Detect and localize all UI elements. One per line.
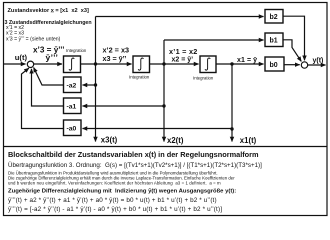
svg-text:x3 = ȳ’’: x3 = ȳ’’ (103, 54, 127, 63)
svg-text:y(t): y(t) (313, 57, 324, 64)
svg-text:Zugehörige Differenzialgleichu: Zugehörige Differenzialgleichung mit Ind… (8, 188, 236, 194)
divider line between diagram and text block (4, 146, 328, 148)
gain block -a0 (64, 120, 82, 136)
svg-text:b0: b0 (270, 62, 278, 69)
summing junction S2 (301, 62, 307, 68)
node x3 on main line (94, 62, 97, 65)
gain block -a2 (64, 77, 82, 93)
wire x2 to -a1 (83, 105, 165, 107)
integrator I2 (133, 56, 150, 73)
wire x3 tap vertical (95, 17, 97, 142)
svg-text:ȳ’’’(t) + a2 * ȳ’’(t) + a1 * ȳ: ȳ’’’(t) + a2 * ȳ’’(t) + a1 * ȳ’(t) + a0 … (8, 197, 217, 204)
integrator I1 (64, 56, 81, 73)
summing junction S1 (27, 61, 33, 67)
node x1 on main line (230, 62, 233, 65)
svg-text:-a2: -a2 (67, 83, 77, 90)
integral sign I3 (205, 58, 210, 70)
svg-text:x2(t): x2(t) (167, 136, 184, 145)
svg-text:Übertragungsfunktion 3. Ordnun: Übertragungsfunktion 3. Ordnung: G(s) = … (8, 162, 262, 169)
wire u(t) input (4, 63, 26, 65)
wire I2 to I3 (150, 63, 199, 65)
svg-text:Zustandsvektor x̲ = [x1 x2 x: Zustandsvektor x̲ = [x1 x2 x3] (8, 8, 89, 14)
wire b1 feed (164, 39, 264, 41)
wire y(t) output (308, 64, 326, 66)
wire x1 to -a0 (83, 128, 233, 130)
wire S1 to integrator I1 (34, 63, 62, 65)
svg-text:ȳ’’’: ȳ’’’ (46, 53, 59, 63)
svg-text:u(t): u(t) (15, 53, 28, 62)
svg-text:Integration: Integration (129, 75, 150, 80)
svg-text:x1(t): x1(t) (240, 136, 257, 145)
wire x1 tap vertical (231, 64, 233, 142)
node a1 junction (162, 104, 165, 107)
wire x3 to -a2 (83, 84, 96, 86)
svg-text:ȳ’’’(t) = [-a2 * ȳ’’(t) - a1 *: ȳ’’’(t) = [-a2 * ȳ’’(t) - a1 * ȳ’(t) - a… (8, 206, 222, 213)
wire b2 feed (96, 16, 264, 18)
svg-text:b2: b2 (270, 14, 278, 21)
svg-text:-a1: -a1 (67, 104, 77, 111)
svg-text:b1: b1 (270, 38, 278, 45)
svg-text:-a0: -a0 (67, 126, 77, 133)
wire I1 to I2 (81, 63, 132, 65)
svg-text:x2 = ȳ’: x2 = ȳ’ (172, 57, 194, 64)
integral sign I2 (138, 58, 143, 70)
wire -a2 output to S1 (34, 68, 64, 86)
svg-text:Integration: Integration (66, 48, 87, 53)
wire b1 output (283, 40, 301, 62)
gain block b1 (265, 33, 283, 47)
svg-text:x1 = ȳ: x1 = ȳ (237, 57, 257, 64)
wire -a1 output to S1 (32, 69, 64, 106)
wire -a0 output to S1 (22, 68, 64, 128)
svg-text:Blockschaltbild der Zustandsva: Blockschaltbild der Zustandsvariablen x(… (8, 150, 259, 159)
integrator I3 (200, 56, 216, 73)
svg-text:x’1 = x2: x’1 = x2 (169, 47, 198, 56)
wire I3 to b0 (216, 63, 264, 65)
svg-text:x3(t): x3(t) (101, 135, 118, 144)
svg-text:x’3 = ȳ’’’ = (siehe unten): x’3 = ȳ’’’ = (siehe unten) (6, 36, 61, 42)
node a0 junction (230, 127, 233, 130)
integral sign I1 (69, 58, 74, 70)
gain block b0 (265, 57, 284, 71)
node a2 junction (94, 83, 97, 86)
svg-text:und b werden neu eingeführt. V: und b werden neu eingeführt. Vereinfachu… (8, 180, 221, 185)
wire b0 output (284, 64, 300, 66)
svg-text:Integration: Integration (193, 76, 214, 81)
node x2 on main line (162, 62, 165, 65)
wire b2 output (283, 16, 305, 60)
gain block b2 (265, 10, 283, 24)
wire x2 tap vertical (163, 40, 165, 142)
gain block -a1 (64, 98, 82, 114)
